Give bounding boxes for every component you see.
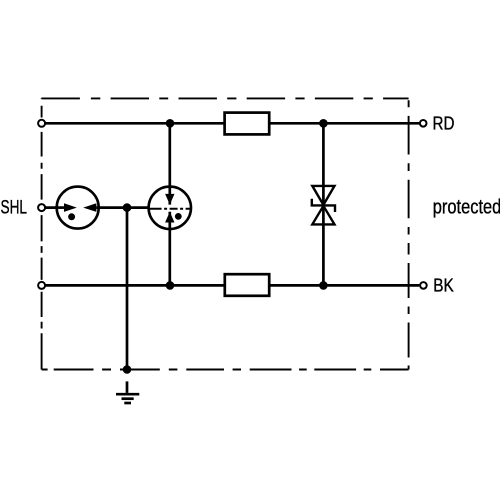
svg-text:RD: RD [433,113,455,134]
svg-text:BK: BK [433,275,454,296]
svg-text:protected: protected [433,197,500,219]
svg-text:SHL: SHL [1,196,28,218]
